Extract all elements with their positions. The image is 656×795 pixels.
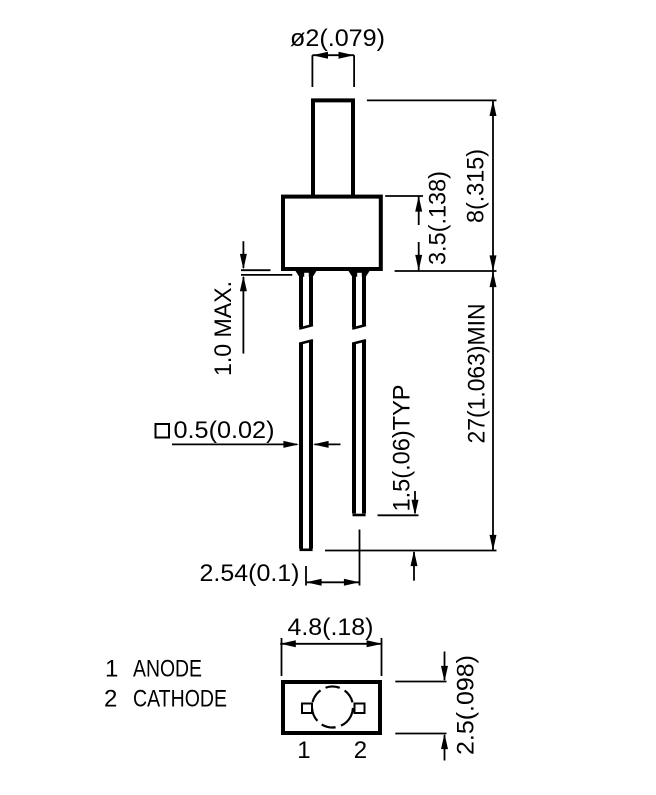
svg-text:1: 1 <box>297 737 310 764</box>
svg-text:4.8(.18): 4.8(.18) <box>288 614 374 641</box>
svg-text:27(1.063)MIN: 27(1.063)MIN <box>464 304 491 444</box>
svg-text:8(.315): 8(.315) <box>463 149 490 223</box>
svg-text:1: 1 <box>105 656 118 683</box>
svg-text:CATHODE: CATHODE <box>133 686 227 713</box>
svg-text:3.5(.138): 3.5(.138) <box>425 171 452 265</box>
svg-text:2.5(.098): 2.5(.098) <box>453 655 480 755</box>
svg-text:2: 2 <box>354 737 367 764</box>
svg-text:1.5(.06)TYP: 1.5(.06)TYP <box>389 385 416 512</box>
svg-text:2.54(0.1): 2.54(0.1) <box>200 560 300 587</box>
svg-text:0.5(0.02): 0.5(0.02) <box>174 417 275 444</box>
svg-text:ø2(.079): ø2(.079) <box>290 25 385 52</box>
svg-text:2: 2 <box>104 686 117 713</box>
svg-text:ANODE: ANODE <box>133 656 202 683</box>
svg-text:1.0 MAX.: 1.0 MAX. <box>210 281 237 376</box>
